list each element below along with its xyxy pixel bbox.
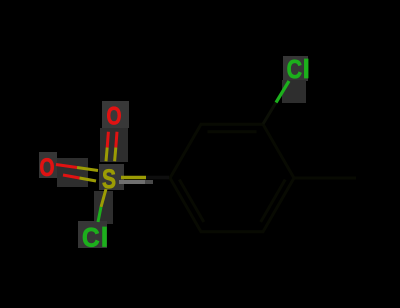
bond S-C1 sulfur half (olive)	[121, 176, 146, 179]
svg-text:S: S	[102, 164, 116, 194]
jpeg gray artifact tail of S-C1 bond	[145, 180, 153, 184]
S-Cl bond sulfur half (olive)	[101, 189, 106, 207]
ring Cl bond carbon half (dark)	[263, 103, 276, 125]
jpeg halo behind S label	[99, 164, 124, 190]
S=O horizontal double bond lower line red half	[63, 175, 80, 178]
jpeg gray artifact line under S-C1 bond	[119, 180, 145, 184]
aromatic inner line C2=C3	[208, 130, 257, 133]
methyl bond from C4	[294, 177, 356, 180]
svg-text:O: O	[40, 154, 55, 182]
S=O vertical double bond right line red half	[116, 132, 117, 148]
jpeg halo below top O along S=O double bond	[100, 128, 128, 162]
S-Cl bond chlorine half (green)	[98, 207, 101, 222]
svg-text:l: l	[101, 222, 109, 252]
svg-text:l: l	[303, 54, 310, 84]
jpeg halo along left S=O double bond	[57, 158, 88, 187]
ring Cl bond chlorine half (green)	[276, 81, 289, 103]
jpeg halo along top Cl bond	[282, 80, 306, 103]
S=O horizontal double bond upper line olive half	[77, 168, 98, 171]
svg-text:C: C	[287, 54, 303, 84]
jpeg halo along S-Cl bond	[94, 191, 113, 224]
jpeg halo behind left O label	[39, 152, 57, 178]
S=O vertical double bond left line olive half	[106, 148, 107, 162]
S=O horizontal double bond lower line olive half	[80, 178, 97, 181]
S=O vertical double bond right line olive half	[115, 148, 116, 162]
svg-text:C: C	[82, 222, 100, 252]
benzene ring (dark)	[170, 124, 294, 231]
bond S-C1 carbon half (dark)	[146, 176, 169, 179]
jpeg halo behind top O label	[102, 101, 129, 128]
jpeg halo behind bottom Cl label	[78, 221, 107, 248]
aromatic inner line C6=C1	[179, 180, 204, 223]
svg-text:O: O	[107, 102, 122, 130]
jpeg halo behind top Cl label	[283, 56, 308, 81]
aromatic inner line C4=C5	[261, 180, 286, 223]
S=O vertical double bond left line red half	[107, 132, 108, 148]
S=O horizontal double bond upper line red half	[56, 165, 77, 168]
